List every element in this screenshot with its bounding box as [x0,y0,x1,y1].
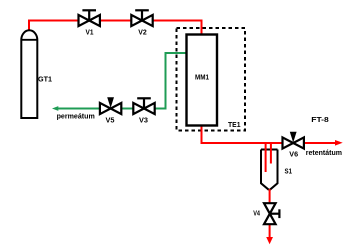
valve V4 (vertical) [264,203,279,224]
arrow: retentate outlet (red) [335,140,343,146]
svg-text:V2: V2 [138,28,147,37]
valve V2 [131,10,152,36]
svg-text:V1: V1 [86,28,94,37]
pipe: retentate line from MM1 bottom to S1 and V6 (red) [202,120,336,143]
pipe: drain line from S1 through V4 (red) [269,189,271,238]
svg-text:V4: V4 [253,208,260,217]
svg-text:V3: V3 [139,116,148,125]
valve V6 (needle) [283,132,304,159]
svg-text:TE1: TE1 [228,120,241,129]
svg-text:retentátum: retentátum [306,148,343,157]
arrow: drain outlet (red) [266,237,273,244]
pipe: dip tube into S1 (red) [265,143,267,172]
valve V3 [133,98,154,124]
svg-text:V5: V5 [106,116,115,125]
svg-text:V6: V6 [289,150,298,159]
svg-text:permeátum: permeátum [57,111,96,120]
arrow: permeate outlet (green) [52,106,58,111]
valve V1 [79,10,100,36]
svg-text:GT1: GT1 [38,75,52,84]
pipe: feed line from cylinder GT1 through V1,V2 to MM1 top (red) [29,21,202,41]
svg-text:S1: S1 [285,167,293,176]
separator vessel S1 [261,150,278,190]
valve V5 (needle) [100,97,121,124]
pipe: permeate line from MM1 through V3,V5 (green) [58,53,189,109]
svg-text:MM1: MM1 [195,73,209,82]
dashed enclosure TE1 [177,28,246,131]
svg-text:FT-8: FT-8 [311,115,329,124]
pipe: outlet tube from S1 (red) [270,143,272,164]
gas cylinder GT1 [21,30,37,118]
membrane module MM1 [187,35,218,126]
